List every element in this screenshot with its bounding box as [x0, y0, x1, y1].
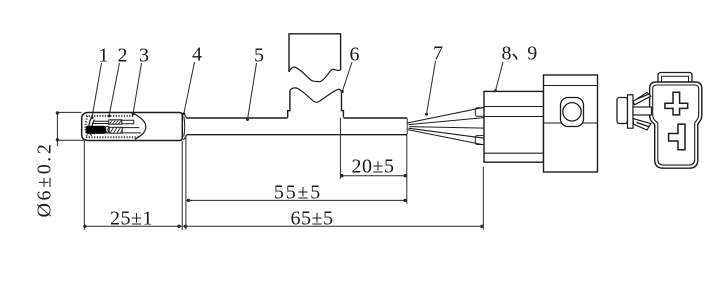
- ext line connector front: [482, 167, 484, 230]
- svg-text:6: 6: [350, 44, 360, 66]
- leader 6: [342, 62, 352, 92]
- thermistor element (black): [86, 126, 106, 134]
- front view: upper terminal slot: [665, 92, 688, 115]
- svg-text:5: 5: [254, 45, 264, 67]
- wire seal tab lower: [475, 136, 484, 145]
- enumeration comma: [513, 54, 517, 60]
- leader 3: [133, 63, 142, 114]
- front view clip: vertical bar: [628, 95, 634, 128]
- connector rear housing: [484, 91, 544, 162]
- cable bottom edge: [187, 134, 408, 136]
- cable end: [406, 118, 408, 134]
- ext line boot right: [339, 118, 341, 179]
- boot upper section: [289, 34, 341, 72]
- rear housing inner line 2: [484, 116, 544, 118]
- potting stipple bottom edge: [86, 136, 139, 138]
- potting stipple top edge: [86, 115, 134, 117]
- front view: top tab: [658, 73, 692, 83]
- wire fan to connector: [407, 107, 484, 144]
- potting stipple left arc: [86, 116, 88, 137]
- boot lower section sides: [288, 91, 344, 118]
- svg-text:65±5: 65±5: [291, 208, 334, 230]
- probe tube body: [82, 113, 183, 141]
- potting boundary curve: [134, 114, 146, 140]
- cable end oval at tube exit: [183, 116, 186, 136]
- front view: lower terminal slot: [669, 124, 685, 150]
- svg-text:Ø6±0.2: Ø6±0.2: [34, 141, 56, 217]
- svg-text:1: 1: [99, 45, 109, 67]
- leader 8/9: [496, 62, 504, 91]
- front view: inner outline: [653, 85, 699, 165]
- svg-text:55±5: 55±5: [274, 182, 322, 204]
- front view clip: middle bar: [633, 107, 652, 115]
- svg-text:8: 8: [502, 43, 512, 65]
- upper crimp sleeve (hatched): [109, 120, 122, 124]
- lower wire end: [122, 128, 141, 133]
- front housing mid line: [544, 122, 598, 124]
- dia6 extension top: [56, 111, 82, 113]
- leader 1: [92, 63, 102, 118]
- leader 2: [109, 63, 120, 116]
- dim line 25 / 65: [84, 225, 483, 227]
- upper lead wire from tip: [93, 121, 109, 123]
- small crimp stub: [106, 127, 109, 133]
- front view clip: lower barb: [633, 119, 651, 131]
- front view clip: upper barb: [633, 93, 651, 105]
- leader 5: [248, 63, 257, 120]
- leader 4: [184, 62, 195, 114]
- connector front housing: [544, 75, 598, 172]
- ext line cable start: [185, 135, 187, 229]
- upper wire end: [122, 120, 134, 124]
- boot lower break wave: [290, 88, 342, 102]
- dim line 20: [340, 175, 406, 177]
- svg-text:9: 9: [527, 43, 537, 65]
- cable top edge: [187, 117, 408, 119]
- front view clip: left bracket: [617, 98, 628, 124]
- front housing top inner line: [544, 85, 598, 87]
- svg-text:3: 3: [139, 45, 149, 67]
- svg-text:20±5: 20±5: [352, 156, 395, 178]
- latch window outer: [561, 98, 584, 127]
- ext line cable end: [406, 135, 408, 203]
- front view: outer outline: [650, 82, 702, 168]
- svg-text:4: 4: [192, 44, 202, 66]
- rear housing inner line 3: [484, 152, 544, 154]
- dim line 55: [187, 199, 407, 201]
- ext line tube end: [181, 141, 183, 229]
- svg-text:25±1: 25±1: [110, 208, 153, 230]
- leader 7: [427, 61, 436, 114]
- dia6 dimension line: [56, 112, 58, 146]
- rear housing inner line 1: [484, 106, 544, 108]
- boot upper break wave: [289, 67, 341, 82]
- tube to cable fillet bottom: [183, 135, 186, 140]
- ext line probe tip: [83, 141, 85, 230]
- latch window circle: [563, 103, 581, 121]
- svg-text:2: 2: [118, 45, 128, 67]
- svg-text:7: 7: [433, 43, 443, 65]
- tube to cable fillet top: [183, 114, 186, 119]
- lower crimp sleeve (hatched): [109, 127, 122, 133]
- wire seal tab upper: [475, 108, 484, 116]
- sensor tip nested arc 1: [89, 118, 92, 136]
- dia6 extension bottom: [56, 139, 84, 141]
- sensor tip nested arc 2: [92, 120, 94, 135]
